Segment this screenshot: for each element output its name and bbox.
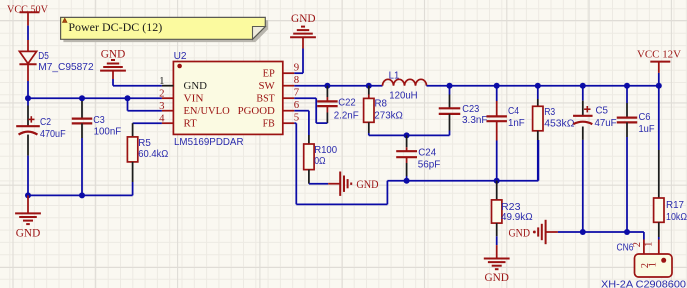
svg-text:GND: GND bbox=[101, 48, 126, 60]
svg-text:FB: FB bbox=[263, 117, 275, 129]
svg-text:Power DC-DC (12): Power DC-DC (12) bbox=[68, 22, 162, 34]
svg-text:EP: EP bbox=[263, 67, 275, 79]
svg-text:C22: C22 bbox=[338, 97, 356, 108]
svg-text:U2: U2 bbox=[174, 51, 187, 62]
svg-text:LM5169PDDAR: LM5169PDDAR bbox=[174, 137, 244, 148]
svg-text:VCC 12V: VCC 12V bbox=[637, 49, 681, 61]
svg-text:GND: GND bbox=[16, 228, 41, 240]
svg-text:2.2nF: 2.2nF bbox=[334, 110, 359, 121]
svg-text:4: 4 bbox=[159, 112, 165, 124]
svg-text:1: 1 bbox=[648, 262, 659, 267]
svg-text:L1: L1 bbox=[389, 70, 400, 81]
svg-text:CN6: CN6 bbox=[617, 242, 634, 253]
svg-text:C4: C4 bbox=[508, 106, 519, 117]
svg-text:R5: R5 bbox=[138, 138, 151, 149]
svg-text:PGOOD: PGOOD bbox=[238, 105, 275, 117]
svg-text:C23: C23 bbox=[462, 104, 479, 115]
svg-text:3: 3 bbox=[159, 100, 164, 112]
svg-text:60.4kΩ: 60.4kΩ bbox=[138, 149, 168, 160]
svg-text:3.3nF: 3.3nF bbox=[462, 115, 488, 126]
svg-text:GND: GND bbox=[291, 13, 316, 25]
svg-text:10kΩ: 10kΩ bbox=[666, 212, 687, 223]
svg-text:GND: GND bbox=[509, 228, 531, 240]
svg-text:2: 2 bbox=[632, 242, 643, 247]
svg-text:C3: C3 bbox=[93, 115, 105, 126]
svg-text:R100: R100 bbox=[314, 145, 337, 156]
svg-text:7: 7 bbox=[294, 87, 300, 99]
svg-text:R17: R17 bbox=[666, 200, 684, 211]
svg-text:1nF: 1nF bbox=[508, 118, 525, 129]
svg-text:470uF: 470uF bbox=[40, 129, 66, 140]
svg-text:1uF: 1uF bbox=[639, 124, 655, 135]
svg-text:GND: GND bbox=[184, 80, 208, 92]
svg-text:9: 9 bbox=[294, 62, 299, 74]
svg-text:1: 1 bbox=[159, 75, 164, 87]
svg-text:C2: C2 bbox=[40, 117, 51, 128]
svg-text:0Ω: 0Ω bbox=[314, 156, 326, 167]
svg-text:EN/UVLO: EN/UVLO bbox=[184, 105, 230, 117]
svg-text:D5: D5 bbox=[38, 51, 49, 62]
svg-text:2: 2 bbox=[159, 87, 164, 99]
svg-text:GND: GND bbox=[356, 179, 378, 191]
svg-text:VIN: VIN bbox=[184, 92, 204, 104]
svg-text:M7_C95872: M7_C95872 bbox=[38, 62, 94, 73]
svg-text:49.9kΩ: 49.9kΩ bbox=[501, 212, 533, 223]
svg-text:5: 5 bbox=[294, 112, 299, 124]
svg-text:RT: RT bbox=[184, 117, 198, 129]
svg-text:C5: C5 bbox=[596, 105, 609, 116]
svg-text:56pF: 56pF bbox=[418, 160, 441, 171]
svg-text:R3: R3 bbox=[544, 107, 555, 118]
svg-text:273kΩ: 273kΩ bbox=[374, 111, 403, 122]
svg-text:1: 1 bbox=[644, 242, 655, 247]
svg-text:XH-2A C2908600: XH-2A C2908600 bbox=[601, 279, 686, 288]
svg-text:8: 8 bbox=[294, 74, 299, 86]
svg-text:120uH: 120uH bbox=[389, 91, 417, 102]
svg-text:453kΩ: 453kΩ bbox=[544, 118, 575, 129]
svg-text:GND: GND bbox=[484, 272, 509, 284]
svg-text:SW: SW bbox=[259, 80, 276, 92]
svg-text:BST: BST bbox=[256, 92, 275, 104]
svg-text:C24: C24 bbox=[418, 148, 436, 159]
svg-text:R8: R8 bbox=[375, 99, 388, 110]
svg-text:C6: C6 bbox=[639, 112, 651, 123]
svg-text:100nF: 100nF bbox=[94, 127, 122, 138]
svg-text:6: 6 bbox=[294, 99, 300, 111]
svg-text:47uF: 47uF bbox=[595, 118, 617, 129]
